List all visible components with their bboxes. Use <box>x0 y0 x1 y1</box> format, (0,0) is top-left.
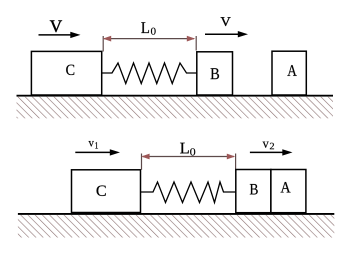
velocity arrow V of block B (top) <box>205 31 248 37</box>
spring between C and B (bottom) <box>141 182 236 203</box>
label V (velocity of block B, top) <box>221 17 231 26</box>
label 1 (subscript of v1) <box>95 142 98 149</box>
label v (of v1, bottom) <box>88 141 93 146</box>
label A (top block A) <box>287 65 296 76</box>
ground hatching (bottom) <box>18 215 334 237</box>
label A (bottom block A) <box>281 182 291 192</box>
spring between C and B (top) <box>102 63 197 84</box>
label 2 (subscript of v2) <box>270 143 274 150</box>
ground hatching (top) <box>17 97 334 119</box>
block A (top) <box>272 51 306 95</box>
ground line (top) <box>17 95 334 97</box>
velocity arrow V of block C (top) <box>39 32 81 38</box>
ground line (bottom) <box>18 213 334 215</box>
velocity arrow v2 of blocks B+A (bottom) <box>250 149 293 155</box>
velocity arrow v1 of block C (bottom) <box>75 149 120 155</box>
block B (top) <box>197 52 233 95</box>
label v (of v2, bottom) <box>263 142 269 148</box>
label L (of L0 dimension, bottom) <box>180 143 189 154</box>
label 0 (subscript of L0, bottom) <box>190 148 195 155</box>
block B (bottom) <box>236 170 271 213</box>
label L (of L0 dimension, top) <box>141 22 149 33</box>
label C (bottom block C) <box>97 185 106 196</box>
dimension arrow L0 between C and B (top) <box>103 36 196 52</box>
dimension arrow L0 between C and B (bottom) <box>141 154 235 170</box>
label 0 (subscript of L0, top) <box>151 28 156 35</box>
label C (top block C) <box>66 65 74 75</box>
block C (top) <box>31 51 101 95</box>
block A (bottom) <box>271 170 306 213</box>
label B (bottom block B) <box>250 184 258 194</box>
block C (bottom) <box>72 170 141 213</box>
label B (top block B) <box>211 68 219 79</box>
label V (velocity of block C, top) <box>50 20 62 32</box>
